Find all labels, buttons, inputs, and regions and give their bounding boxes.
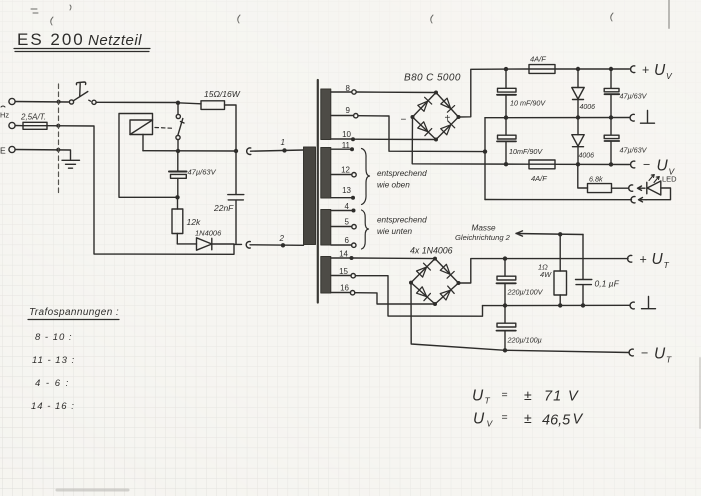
- transformer secondary winding S3 (4-5-6): [321, 210, 331, 246]
- svg-text:5: 5: [345, 218, 350, 227]
- pin 11: [331, 141, 354, 151]
- svg-text:10mF/90V: 10mF/90V: [509, 147, 543, 156]
- svg-text:1N4006: 1N4006: [195, 229, 222, 238]
- svg-text:U: U: [472, 388, 484, 405]
- svg-text:V: V: [568, 389, 579, 405]
- row 4-6: [35, 378, 70, 389]
- svg-text:47µ/63V: 47µ/63V: [620, 92, 648, 101]
- node dot -UT rail: [503, 348, 507, 352]
- relay coil K1: [130, 120, 153, 135]
- svg-text:=: =: [502, 389, 508, 401]
- svg-text:4006: 4006: [579, 153, 595, 160]
- connector hook LED bottom: [631, 197, 646, 203]
- node dots ground rail: [483, 115, 613, 154]
- svg-text:Netzteil: Netzteil: [88, 32, 142, 49]
- svg-text:+: +: [640, 253, 647, 267]
- pin 14: [331, 250, 354, 261]
- pin 13: [331, 186, 355, 200]
- connector hook pin2: [246, 241, 250, 248]
- svg-text:U: U: [654, 62, 666, 79]
- capacitor C7 220u/100V: [497, 261, 544, 304]
- LED D4: [646, 175, 677, 200]
- svg-text:2: 2: [279, 234, 285, 243]
- wire L to switch: [15, 101, 68, 104]
- pin 12: [331, 166, 356, 177]
- wire relay coil loop: [119, 114, 178, 198]
- svg-text:22nF: 22nF: [213, 203, 234, 213]
- svg-text:8: 8: [346, 84, 351, 93]
- svg-text:±: ±: [524, 410, 532, 426]
- stray pencil marks top: [31, 5, 613, 25]
- svg-text:Gleichrichtung 2: Gleichrichtung 2: [455, 233, 511, 242]
- svg-text:ES 200: ES 200: [17, 30, 85, 49]
- pin 4: [331, 202, 356, 213]
- wire bridge U2 plus to +UT rail: [459, 259, 629, 283]
- svg-text:47µ/63V: 47µ/63V: [620, 146, 648, 155]
- svg-text:14: 14: [339, 250, 348, 259]
- label Hz (mains): [0, 106, 9, 120]
- svg-text:U: U: [657, 158, 669, 175]
- dashed link relay coil to contact: [155, 127, 174, 130]
- brace winding S2: [362, 149, 370, 205]
- note entsprechend wie oben: [377, 169, 427, 190]
- rail ground Uv: [485, 117, 629, 119]
- terminal ground T: [630, 297, 655, 309]
- node dot pin2: [281, 243, 285, 247]
- transformer secondary winding S4 (14-15-16): [321, 257, 331, 294]
- capacitor C6 47u/63V lower: [604, 120, 647, 163]
- pin 16: [331, 284, 355, 295]
- svg-text:47µ/63V: 47µ/63V: [188, 168, 217, 177]
- capacitor C9 0.1uF: [576, 235, 620, 304]
- resistor R2 12k: [172, 197, 201, 244]
- svg-text:15Ω/16W: 15Ω/16W: [204, 89, 241, 99]
- wire fuse to primary loop: [47, 126, 234, 255]
- node dots on pin1 rail: [176, 148, 287, 153]
- rail -Uv: [555, 163, 630, 165]
- pin 8: [331, 84, 356, 94]
- svg-text:1: 1: [281, 138, 285, 147]
- svg-text:Trafospannungen :: Trafospannungen :: [29, 307, 119, 318]
- wire pin8 to bridge U1 top: [356, 91, 436, 94]
- svg-text:12k: 12k: [187, 217, 201, 227]
- svg-text:Hz: Hz: [0, 111, 9, 120]
- terminal -UT: [629, 346, 672, 365]
- brace winding S3: [362, 210, 369, 249]
- svg-text:E: E: [0, 146, 6, 156]
- svg-text:4W: 4W: [540, 270, 552, 279]
- pin label 2: [279, 234, 285, 243]
- svg-text:2,5A/T.: 2,5A/T.: [20, 113, 46, 122]
- note Masse Gleichrichtung 2 with arrow: [455, 224, 583, 243]
- svg-text:6.8k: 6.8k: [589, 175, 603, 184]
- svg-text:wie unten: wie unten: [377, 227, 412, 236]
- svg-text:220µ/100V: 220µ/100V: [507, 288, 544, 297]
- svg-text:6: 6: [345, 236, 350, 245]
- svg-text:4x 1N4006: 4x 1N4006: [410, 246, 453, 256]
- underline Trafospannungen: [28, 319, 119, 321]
- node dots ground T rail: [503, 303, 585, 308]
- svg-text:220µ/100µ: 220µ/100µ: [507, 336, 542, 345]
- note entsprechend wie unten: [377, 216, 427, 237]
- svg-text:15: 15: [339, 267, 348, 276]
- svg-text:10 mF/90V: 10 mF/90V: [510, 99, 546, 108]
- connector hook LED top: [629, 185, 645, 191]
- diode D1 1N4006: [177, 229, 234, 251]
- capacitor C2 22nF: [213, 151, 244, 244]
- ground symbol: [62, 160, 80, 168]
- resistor R1 15Ohm/16W: [178, 89, 241, 151]
- node dots -Uv rail: [504, 162, 613, 167]
- svg-text:±: ±: [524, 387, 532, 403]
- svg-text:71: 71: [544, 389, 562, 405]
- svg-text:T: T: [485, 396, 491, 406]
- fuse F1 2,5A/T: [15, 113, 47, 130]
- rail -UT: [505, 350, 629, 352]
- mains terminal L (phase): [9, 98, 15, 104]
- table Trafospannungen: [29, 307, 119, 318]
- mains terminal N: [9, 122, 15, 128]
- capacitor C5 10mF/90V lower: [497, 120, 543, 162]
- wire bridge U1 plus to +Uv rail: [459, 69, 530, 117]
- svg-text:12: 12: [341, 166, 350, 175]
- svg-text:14 - 16 :: 14 - 16 :: [31, 401, 75, 412]
- svg-text:−: −: [643, 158, 650, 172]
- transformer secondary winding S2 (11-12-13): [321, 148, 331, 199]
- wire to primary pin 2: [234, 243, 304, 246]
- svg-text:4 - 6 :: 4 - 6 :: [35, 378, 70, 389]
- diode D3 1N4006 lower: [572, 120, 594, 163]
- svg-text:−: −: [641, 346, 648, 360]
- svg-text:Masse: Masse: [472, 224, 497, 233]
- wire bridge U2 minus to -UT rail: [411, 283, 505, 351]
- wire ground to LED bottom hook: [485, 199, 632, 201]
- svg-text:11: 11: [342, 141, 351, 150]
- wire bridge U1 minus to -Uv rail: [412, 117, 529, 164]
- svg-text:16: 16: [340, 284, 349, 293]
- svg-text:10: 10: [342, 130, 351, 139]
- node dots +Uv rail: [504, 67, 613, 72]
- svg-text:T: T: [664, 260, 670, 270]
- node A1 junction: [176, 101, 180, 105]
- svg-text:=: =: [502, 412, 508, 424]
- pin 6: [331, 236, 356, 247]
- title ES 200 Netzteil: [14, 30, 150, 52]
- wire pin9 centre tap to ground node: [358, 116, 485, 152]
- svg-text:U: U: [473, 411, 485, 428]
- terminal +Uv: [631, 62, 673, 81]
- terminal ground Uv: [630, 111, 654, 124]
- wire pin15 to ground T rail: [356, 276, 483, 317]
- svg-text:LED: LED: [662, 175, 677, 184]
- dashed boundary line: [58, 84, 60, 193]
- rail +Uv: [555, 68, 630, 70]
- svg-text:4006: 4006: [580, 104, 596, 111]
- wire switch to node A1: [96, 101, 177, 103]
- row 14-16: [31, 401, 75, 412]
- wire node A1 rail to primary pin 1: [143, 150, 304, 151]
- pin 5: [331, 218, 356, 229]
- wire pin16 to bridge U2 bottom: [355, 293, 435, 304]
- pin 9: [331, 106, 358, 118]
- fuse F3 4A/F lower: [529, 160, 555, 183]
- svg-text:13: 13: [342, 186, 351, 195]
- svg-text:U: U: [652, 251, 664, 268]
- wire ground node vertical: [484, 118, 486, 200]
- diode D2 1N4006: [572, 71, 595, 116]
- svg-text:entsprechend: entsprechend: [377, 216, 427, 225]
- formula UT: [472, 387, 579, 406]
- capacitor C1 47u/63V: [169, 153, 217, 196]
- svg-text:U: U: [654, 346, 666, 363]
- svg-text:+: +: [445, 113, 451, 124]
- svg-text:11 - 13 :: 11 - 13 :: [32, 355, 75, 366]
- node dots on dashed boundary: [56, 100, 60, 152]
- svg-text:4A/F: 4A/F: [530, 55, 546, 64]
- relay contact S1: [176, 105, 184, 151]
- svg-text:B80 C 5000: B80 C 5000: [404, 73, 461, 84]
- terminal -Uv: [631, 158, 676, 177]
- resistor R4 1Ohm/4W: [538, 234, 567, 303]
- label 4x 1N4006: [410, 246, 453, 256]
- fuse F2 4A/F: [529, 55, 555, 74]
- pin 15: [331, 267, 356, 278]
- node dot Masse line: [558, 232, 562, 236]
- svg-text:4A/F: 4A/F: [531, 174, 547, 183]
- transformer core: [317, 80, 319, 303]
- wire pin10 to bridge U1 bottom: [355, 138, 436, 140]
- bridge rectifier U2: [409, 257, 461, 306]
- svg-text:entsprechend: entsprechend: [377, 169, 427, 178]
- svg-text:wie oben: wie oben: [377, 181, 410, 190]
- pin label 1: [281, 138, 285, 147]
- svg-text:9: 9: [346, 106, 351, 115]
- earth terminal E: [0, 146, 15, 156]
- capacitor C4 47u/63V: [604, 71, 647, 116]
- transformer T1 primary winding: [304, 147, 316, 245]
- node B (coil/cap/12k): [175, 195, 179, 199]
- resistor R3 6.8k: [578, 167, 629, 193]
- svg-text:0,1 µF: 0,1 µF: [595, 279, 620, 289]
- svg-text:4: 4: [345, 202, 350, 211]
- transformer secondary winding S1 (8-9-10): [321, 89, 331, 140]
- connector hook pin1: [247, 148, 251, 155]
- svg-text:8 - 10 :: 8 - 10 :: [35, 332, 73, 343]
- svg-text:T: T: [666, 355, 672, 365]
- bridge rectifier U1 B80C5000: [401, 73, 461, 142]
- wire E to ground: [15, 150, 70, 160]
- svg-text:46,5: 46,5: [542, 413, 571, 429]
- switch T (mains switch): [69, 82, 96, 104]
- node dot +UT rail: [503, 256, 507, 260]
- row 11-13: [32, 355, 75, 366]
- svg-text:−: −: [401, 115, 407, 126]
- svg-text:V: V: [573, 412, 584, 428]
- row 8-10: [35, 332, 73, 343]
- svg-text:+: +: [642, 63, 649, 77]
- wire pin14 to bridge U2 top: [354, 257, 436, 260]
- pin 10: [331, 130, 355, 141]
- terminal +UT: [628, 251, 670, 270]
- capacitor C8 220u/100u: [497, 308, 542, 351]
- formula Uv: [473, 410, 584, 429]
- capacitor C3 10mF/90V: [497, 71, 546, 116]
- rail ground T: [483, 304, 630, 306]
